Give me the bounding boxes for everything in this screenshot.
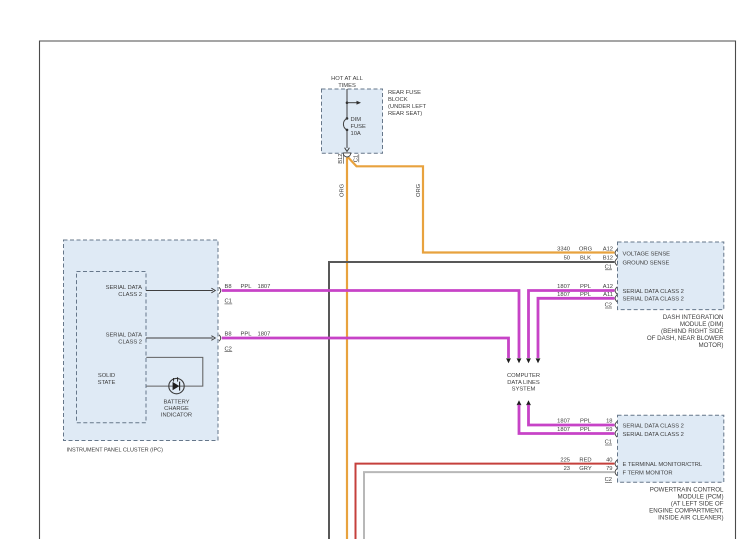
wire from fuse down to connector: [345, 130, 350, 152]
label 1807 PPL 18: [557, 419, 612, 425]
svg-text:SERIAL DATA CLASS 2: SERIAL DATA CLASS 2: [623, 432, 684, 438]
wire PPL serial data from IPC C2 to data hub: [222, 338, 509, 358]
pin label C1 (fuse block): [354, 154, 360, 162]
label SERIAL DATA CLASS 2 (lower, IPC): [106, 333, 143, 346]
svg-text:40: 40: [606, 457, 612, 463]
svg-text:POWERTRAIN CONTROL: POWERTRAIN CONTROL: [650, 486, 724, 493]
label INSTRUMENT PANEL CLUSTER (IPC): [67, 448, 164, 454]
svg-text:VOLTAGE SENSE: VOLTAGE SENSE: [623, 251, 671, 257]
svg-text:CLASS 2: CLASS 2: [118, 339, 142, 345]
label 3340 ORG A12: [557, 246, 613, 252]
svg-text:F TERM MONITOR: F TERM MONITOR: [623, 471, 673, 477]
label SERIAL DATA CLASS 2 (upper, IPC): [106, 285, 143, 298]
svg-text:REAR SEAT): REAR SEAT): [388, 111, 422, 117]
svg-text:RED: RED: [579, 457, 591, 463]
label B8 PPL 1807 (upper): [225, 284, 271, 290]
svg-text:BLK: BLK: [580, 256, 591, 262]
connector socket at IPC C1: [219, 287, 221, 293]
svg-text:59: 59: [606, 427, 612, 433]
connector label C2 (IPC): [225, 346, 233, 352]
DIM pin function labels: [623, 251, 684, 302]
pin label B12: [338, 154, 344, 164]
svg-text:BLOCK: BLOCK: [388, 97, 408, 103]
label ORG (left trunk): [339, 183, 345, 197]
connector label C2 (DIM): [605, 303, 612, 309]
label B8 PPL 1807 (lower): [225, 332, 271, 338]
svg-text:A11: A11: [603, 292, 613, 298]
connector label C1 (DIM): [605, 264, 612, 270]
label 1807 PPL A11: [557, 292, 613, 298]
powertrain control module box: [618, 415, 724, 482]
wire GRY F term monitor from PCM down: [364, 472, 615, 539]
wire ORG trunk from fuse straight down: [347, 154, 349, 539]
svg-text:18: 18: [606, 419, 612, 425]
wire ORG branch to DIM voltage sense: [345, 154, 615, 253]
svg-text:B12: B12: [603, 256, 613, 262]
wire loop to battery charge indicator: [146, 357, 203, 386]
svg-text:SERIAL DATA: SERIAL DATA: [106, 333, 143, 339]
svg-text:50: 50: [564, 256, 570, 262]
instrument panel cluster box: [64, 240, 219, 441]
svg-text:79: 79: [606, 466, 612, 472]
svg-text:MODULE (PCM): MODULE (PCM): [677, 493, 723, 500]
svg-text:SERIAL DATA: SERIAL DATA: [106, 285, 143, 291]
svg-text:MOTOR): MOTOR): [699, 342, 724, 349]
rear fuse block box: [322, 89, 383, 153]
svg-text:OF DASH, NEAR BLOWER: OF DASH, NEAR BLOWER: [647, 335, 724, 342]
svg-text:COMPUTER: COMPUTER: [507, 373, 540, 379]
label REAR FUSE BLOCK (UNDER LEFT REAR SEAT): [388, 90, 427, 117]
label 1807 PPL A12: [557, 284, 613, 290]
svg-text:REAR FUSE: REAR FUSE: [388, 90, 421, 96]
wire RED E terminal monitor from PCM down: [356, 464, 615, 539]
arrow branch to other circuits: [347, 101, 361, 105]
svg-text:STATE: STATE: [98, 380, 116, 386]
arrow from IPC upper serial data to connector C1: [146, 288, 215, 293]
wire feed inside fuse block: [346, 89, 348, 118]
label BATTERY CHARGE INDICATOR: [161, 399, 192, 418]
svg-text:HOT AT ALL: HOT AT ALL: [331, 76, 363, 82]
svg-text:GROUND SENSE: GROUND SENSE: [623, 260, 670, 266]
svg-text:GRY: GRY: [579, 466, 592, 472]
battery charge indicator lamp: [169, 377, 184, 394]
connector label C2 (PCM): [605, 477, 612, 483]
wire BLK ground sense from DIM down: [329, 262, 615, 539]
svg-text:INSTRUMENT PANEL CLUSTER (IPC): INSTRUMENT PANEL CLUSTER (IPC): [67, 448, 164, 454]
dash integration module box: [618, 242, 724, 310]
PCM pin function labels: [623, 423, 703, 476]
label 1807 PPL 59: [557, 427, 612, 433]
svg-text:SYSTEM: SYSTEM: [512, 386, 536, 392]
arrowheads out of computer data lines system: [517, 400, 531, 405]
wire PPL serial data DIM A12 to data hub: [529, 291, 615, 359]
svg-text:CHARGE: CHARGE: [164, 406, 189, 412]
svg-text:(BEHIND RIGHT SIDE: (BEHIND RIGHT SIDE: [661, 328, 723, 335]
label SOLID STATE: [98, 373, 116, 386]
svg-text:ORG: ORG: [339, 183, 345, 197]
label 23 GRY 79: [564, 466, 613, 472]
svg-text:INDICATOR: INDICATOR: [161, 413, 192, 419]
wire PPL serial data hub to PCM pin 59: [519, 405, 615, 434]
svg-text:PPL: PPL: [580, 419, 592, 425]
wire PPL serial data from IPC C1 to data hub: [222, 291, 519, 359]
IPC solid state inner box: [77, 272, 147, 423]
svg-text:(UNDER LEFT: (UNDER LEFT: [388, 104, 427, 110]
connector label C1 (PCM): [605, 440, 612, 446]
svg-text:SOLID: SOLID: [98, 373, 115, 379]
connector label C1 (IPC): [225, 299, 233, 305]
svg-text:BATTERY: BATTERY: [163, 399, 189, 405]
svg-text:E TERMINAL MONITOR/CTRL: E TERMINAL MONITOR/CTRL: [623, 462, 703, 468]
svg-text:1807: 1807: [557, 419, 570, 425]
svg-text:ORG: ORG: [579, 246, 593, 252]
svg-text:A12: A12: [603, 284, 613, 290]
svg-text:1807: 1807: [557, 427, 570, 433]
svg-text:DASH INTEGRATION: DASH INTEGRATION: [663, 314, 724, 321]
svg-text:DIM: DIM: [351, 117, 362, 123]
svg-text:FUSE: FUSE: [351, 124, 367, 130]
svg-text:CLASS 2: CLASS 2: [118, 292, 142, 298]
svg-text:(AT LEFT SIDE OF: (AT LEFT SIDE OF: [671, 500, 724, 507]
svg-text:A12: A12: [603, 246, 613, 252]
svg-text:PPL: PPL: [580, 284, 592, 290]
svg-text:SERIAL DATA CLASS 2: SERIAL DATA CLASS 2: [623, 423, 684, 429]
svg-text:225: 225: [560, 457, 570, 463]
svg-text:TIMES: TIMES: [338, 83, 356, 89]
label DASH INTEGRATION MODULE (DIM) location: [647, 314, 724, 349]
svg-text:C2: C2: [225, 346, 232, 352]
svg-text:MODULE (DIM): MODULE (DIM): [680, 321, 724, 328]
fuse DIM FUSE 10A: [343, 117, 366, 137]
connector B12 socket under fuse block: [343, 153, 351, 157]
svg-text:SERIAL DATA CLASS 2: SERIAL DATA CLASS 2: [623, 289, 684, 295]
label POWERTRAIN CONTROL MODULE (PCM) location: [649, 486, 724, 521]
svg-text:PPL: PPL: [580, 427, 592, 433]
connector sockets DIM C1/C2: [615, 249, 617, 302]
wire PPL serial data DIM A11 to data hub: [538, 298, 615, 358]
svg-text:ENGINE COMPARTMENT,: ENGINE COMPARTMENT,: [649, 507, 724, 514]
svg-text:INSIDE AIR CLEANER): INSIDE AIR CLEANER): [658, 514, 723, 521]
svg-text:23: 23: [564, 466, 570, 472]
connector sockets PCM C1/C2: [615, 421, 617, 475]
arrowheads into computer data lines system: [506, 358, 540, 363]
junction node on feed: [346, 101, 349, 104]
label ORG (right branch): [416, 183, 422, 197]
label 50 BLK B12: [564, 256, 613, 262]
svg-text:1807: 1807: [557, 292, 570, 298]
label 225 RED 40: [560, 457, 612, 463]
svg-text:ORG: ORG: [416, 183, 422, 197]
svg-text:PPL: PPL: [580, 292, 592, 298]
svg-text:10A: 10A: [351, 131, 361, 137]
svg-text:DATA LINES: DATA LINES: [507, 380, 540, 386]
label HOT AT ALL TIMES: [331, 76, 363, 89]
arrow from IPC lower serial data to connector C2: [146, 336, 215, 341]
node COMPUTER DATA LINES SYSTEM: [507, 373, 540, 392]
svg-text:3340: 3340: [557, 246, 570, 252]
svg-text:1807: 1807: [557, 284, 570, 290]
wire PPL serial data hub to PCM pin 18: [529, 405, 615, 425]
connector socket at IPC C2: [219, 335, 221, 341]
svg-text:SERIAL DATA CLASS 2: SERIAL DATA CLASS 2: [623, 297, 684, 303]
